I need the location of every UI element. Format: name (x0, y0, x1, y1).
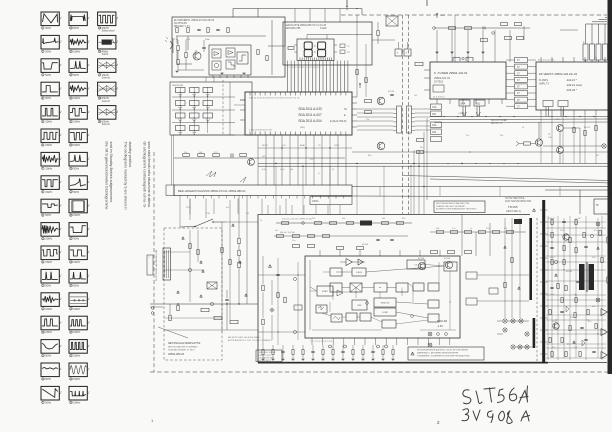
control-line pair extending right from control unit (352, 186, 612, 188)
svg-text:d: d (60, 228, 61, 230)
LED display module box (297, 39, 334, 61)
svg-text:2SC: 2SC (592, 257, 596, 259)
resistor IR bias b (177, 60, 179, 65)
row2 resistors (277, 235, 284, 238)
svg-text:d: d (88, 275, 89, 277)
svg-text:15kHz: 15kHz (45, 191, 53, 194)
svg-text:1n: 1n (318, 173, 320, 175)
resistor R AGC (524, 142, 531, 145)
SMPS component 32 (584, 338, 587, 340)
svg-text:d: d (60, 368, 61, 370)
oscillogram 23 box (69, 129, 87, 143)
interior extra parts left of TDA (277, 293, 279, 298)
svg-text:Zeilenfr.: Zeilenfr. (102, 100, 111, 103)
transistor Q11 (445, 261, 452, 268)
top dashed boundary line (341, 14, 607, 16)
vertical wire right region (579, 190, 581, 214)
keyboard dashed column (222, 80, 224, 135)
oscillogram 18 box (69, 12, 87, 26)
resistor R IF3 (481, 39, 488, 42)
SDA right pin stubs (352, 96, 357, 98)
fuse crossed box (207, 282, 217, 289)
transistor Q1 IR (193, 52, 201, 60)
resistor row1 b (315, 222, 322, 225)
oscillogram 35 box (98, 12, 116, 26)
SMPS component 14 (563, 260, 565, 265)
svg-text:50Hz: 50Hz (73, 167, 80, 170)
wires SDA right to chassis connector (357, 96, 397, 98)
resistor network LED (288, 47, 294, 50)
bottom components row under TDA (258, 351, 430, 353)
tuner top pin (467, 56, 469, 62)
bottom R/C component 13 (382, 350, 384, 355)
svg-text:d: d (88, 321, 89, 323)
TDA internal block 2 (330, 268, 342, 276)
IR box to control unit wires (171, 135, 173, 185)
svg-text:50Hz: 50Hz (45, 401, 52, 404)
SMPS component 26 (569, 326, 571, 331)
secondary opamp driver 3 (601, 352, 607, 359)
svg-text:NETZSCHALTERPLATTE: NETZSCHALTERPLATTE (168, 341, 201, 345)
svg-text:10k: 10k (184, 152, 187, 154)
display module side pins (294, 44, 297, 46)
bottom R/C component 6 (311, 350, 314, 352)
left dashed boundary line (153, 152, 155, 372)
svg-text:50Hz: 50Hz (45, 355, 52, 358)
isolation barrier thick bar 1 upper (529, 218, 532, 300)
svg-text:E (M+R-HOLD): E (M+R-HOLD) (330, 120, 347, 123)
socket stack S2A (431, 122, 442, 128)
nested corner wires top right (586, 23, 608, 25)
wires connector to barrier (507, 320, 529, 322)
oscillogram 38 box (98, 82, 116, 96)
power area extra horizontal wires (164, 251, 190, 253)
SMPS component 34 (565, 352, 567, 357)
svg-text:d: d (88, 345, 89, 347)
svg-text:d: d (60, 64, 61, 66)
svg-text:d: d (88, 87, 89, 89)
svg-text:15kHz: 15kHz (45, 144, 53, 147)
antenna input resistor (415, 62, 423, 65)
keyboard row wires (172, 96, 235, 98)
display module pin hatch row (299, 58, 301, 61)
svg-text:15kHz: 15kHz (73, 214, 81, 217)
TDA internal dots (333, 292, 334, 293)
oscillogram 36 box (98, 35, 116, 49)
resistor row1 d (347, 222, 354, 225)
sloped wire right (430, 179, 612, 183)
TDA internal wires (342, 287, 350, 289)
SMPS component 7 (583, 233, 585, 238)
power switch area dashed outline (164, 228, 222, 360)
resistor R23 (240, 154, 247, 157)
svg-text:d: d (88, 181, 89, 183)
handwritten number 3V 908 A (462, 409, 530, 424)
svg-text:2 3 6 4 8 9 25 26 27 28: 2 3 6 4 8 9 25 26 27 28 (249, 130, 272, 132)
svg-text:d: d (60, 345, 61, 347)
warning text box TR area (434, 201, 485, 213)
svg-text:standby position.: standby position. (128, 142, 132, 168)
oscillogram 27 box (69, 223, 87, 237)
components left of tuner (417, 139, 424, 142)
opamp pre stage (346, 259, 352, 266)
oscillogram 37 box (98, 59, 116, 73)
ZF bottom pin wires down to bus (540, 115, 542, 164)
svg-text:15k: 15k (570, 317, 573, 319)
key switch S6 (203, 101, 213, 106)
TDA internal block 9 (374, 298, 396, 307)
svg-text:ZF-VERST. 29504-102.21/.22: ZF-VERST. 29504-102.21/.22 (539, 72, 577, 76)
IR IC output stage (226, 60, 235, 69)
power area circles (188, 268, 191, 271)
control unit long box BED.-EINHEIT (174, 185, 352, 196)
warning triangle 4 (177, 291, 180, 293)
svg-text:sono stati rilevati nella situ: sono stati rilevati nella situazione di … (147, 142, 151, 208)
SMPS component 17 (550, 286, 553, 288)
svg-text:BRT/DC CL: BRT/DC CL (491, 123, 503, 125)
svg-text:50Hz: 50Hz (73, 74, 80, 77)
key switch S7 (176, 113, 186, 118)
interior vertical wires left of TDA (277, 258, 279, 345)
IR IC limiter (237, 52, 248, 64)
capacitor C20 (230, 154, 232, 158)
TDA internal block 11 (316, 305, 327, 313)
svg-text:CD-PHILIPS: CD-PHILIPS (174, 23, 187, 25)
key switch S1 (176, 88, 186, 93)
oscillogram 12 box (41, 269, 59, 283)
svg-text:50Hz: 50Hz (45, 27, 52, 30)
svg-text:50Hz: 50Hz (73, 238, 80, 241)
note leader line (158, 327, 188, 338)
svg-text:S1A: S1A (432, 106, 437, 109)
connector strip P2 (407, 106, 412, 133)
supply arrows near SDA (359, 83, 361, 88)
svg-text:d: d (60, 41, 61, 43)
SMPS component 23 (574, 313, 576, 318)
secondary opamp driver 2 (601, 329, 607, 336)
keyboard right vertical wire (229, 82, 231, 135)
TDA opamp symbol a (358, 259, 363, 265)
wire AGC up (538, 122, 540, 139)
junction dots chassis edge (413, 163, 414, 164)
warning triangle right column a (504, 246, 507, 248)
bottom R/C component 14 (392, 350, 394, 355)
svg-text:15kHz: 15kHz (73, 378, 81, 381)
bottom R/C component 8 (332, 350, 334, 355)
svg-text:11 4 3 9 5 2: 11 4 3 9 5 2 (433, 97, 445, 99)
row resistors 250s (431, 251, 438, 254)
svg-text:d: d (60, 181, 61, 183)
vertical wires LED box top to rail (294, 9, 296, 23)
key switch S2 (190, 88, 200, 93)
svg-text:d: d (88, 298, 89, 300)
ZF pin ticks top (540, 57, 542, 62)
capacitor C1 (197, 28, 200, 30)
SMPS component 6 (563, 234, 569, 240)
IR wires top rail (174, 22, 268, 24)
resistor R mains 3 (238, 262, 240, 268)
svg-text:1 17 4 15 9 3 10 8: 1 17 4 15 9 3 10 8 2 13 6 (310, 341, 333, 343)
oscillogram 24 box (69, 152, 87, 166)
transistor Q6 (557, 147, 564, 154)
mains wires vertical (238, 195, 240, 238)
svg-text:SDA 2011 A-004: SDA 2011 A-004 (298, 119, 322, 123)
right half row resistors near isolation (437, 231, 444, 234)
oscillogram 10 box (41, 223, 59, 237)
bottom R/C component 4 (292, 350, 294, 355)
oscillogram 25 box (69, 176, 87, 190)
svg-text:100n: 100n (280, 169, 284, 171)
second sloped wire (402, 176, 612, 181)
resistor R2 (187, 28, 189, 33)
TDA internal block 17 (428, 283, 439, 291)
junction dots main bus (275, 163, 276, 164)
display colon dots (314, 45, 315, 46)
svg-text:50Hz: 50Hz (73, 191, 80, 194)
SMPS component 33 (551, 352, 553, 357)
svg-text:d: d (60, 298, 61, 300)
wires upper right of TDA (461, 215, 463, 257)
main chassis outline box (258, 214, 530, 216)
TDA internal circles (366, 302, 369, 305)
svg-text:COMP: COMP (382, 312, 389, 314)
TDA internal block 16 (413, 283, 424, 291)
socket box S6A (459, 100, 470, 106)
svg-text:S02: S02 (432, 131, 437, 134)
SMPS component 35 (579, 352, 581, 357)
warning note box center bottom (408, 347, 484, 360)
SDA IC pin ticks bottom (249, 132, 251, 136)
svg-text:d: d (88, 251, 89, 253)
resistor R22 (213, 154, 220, 157)
warning triangle 3 (202, 270, 205, 272)
svg-text:47n: 47n (594, 230, 597, 232)
TDA sawtooth gen symbol (318, 306, 324, 310)
TDA internal block 6 (374, 283, 387, 292)
oscillogram 28 box (69, 246, 87, 260)
wire ZF to right edge (610, 74, 612, 76)
transistor Q3 mid (377, 97, 385, 105)
TDA internal block 10 (374, 308, 396, 316)
AGC arrow (516, 141, 519, 146)
socket stack S1A (431, 104, 442, 110)
bottom R/C component 9 (341, 350, 344, 352)
TDA internal block 18 (428, 300, 439, 308)
svg-text:sind im Standby-Betrieb aufgen: sind im Standby-Betrieb aufgenommen. (109, 142, 113, 204)
svg-text:d: d (88, 204, 89, 206)
IF link box 1 (515, 58, 528, 63)
transistor Q4 mid (377, 142, 385, 150)
svg-text:2k: 2k (332, 169, 334, 171)
SMPS component 1 (551, 220, 553, 225)
wire top rail over IR and LED (233, 8, 362, 10)
power area extra resistors (189, 244, 191, 249)
connector circles group row1 (503, 319, 507, 323)
keyboard matrix board box (170, 82, 252, 135)
oscillogram 33 box (69, 363, 87, 377)
ZF pin ticks bottom (540, 110, 542, 115)
oscillogram 6 box (41, 129, 59, 143)
svg-text:10u: 10u (292, 240, 295, 242)
wire vertical right of IC (271, 20, 273, 75)
socket stack S02 (431, 129, 442, 135)
svg-text:1 2 3 4 5 6 7 8 9 10 11 12 13: 1 2 3 4 5 6 7 8 9 10 11 12 13 14 15 16 (287, 67, 322, 69)
horizontal bus wires below tuner (430, 116, 612, 118)
SMPS component 12 (597, 247, 600, 249)
svg-text:24 1 21 20 23 22 19 18 17 5 13: 24 1 21 20 23 22 19 18 17 5 13 16 12 15 … (249, 98, 300, 100)
IC U2 TDA 3640 standby supply box (305, 256, 460, 338)
vertical wires chassis edge area (413, 150, 415, 214)
wire drop pairs from ZF sockets (545, 107, 547, 117)
resistor right column a (511, 258, 513, 263)
svg-text:d: d (117, 111, 118, 113)
SMPS component 18 (561, 298, 563, 303)
wires between SDA area and bus rows (258, 147, 352, 149)
supply arrow top (436, 13, 438, 18)
bottom R/C component 10 (352, 350, 354, 355)
TDA internal block 12 (331, 314, 342, 322)
isolation barrier thick bar 1 lower (533, 318, 536, 348)
svg-text:68k 4n7 1k2 560: 68k 4n7 1k2 560 (280, 232, 296, 234)
transistor Q10 (418, 262, 425, 269)
warning triangle 8 (245, 294, 248, 296)
main box left interior parts (269, 265, 272, 268)
SMPS component 11 (575, 248, 577, 253)
transistor Q tuner AGC (535, 139, 542, 146)
IR IC amp stage 1 (212, 49, 221, 58)
svg-text:VOLTMETER GEM.: VOLTMETER GEM. (258, 357, 274, 359)
svg-text:BC338: BC338 (444, 258, 451, 260)
bottom R/C component 2 (272, 350, 274, 355)
oscillogram 3 box (41, 59, 59, 73)
bus wires LED to SDA IC (287, 65, 289, 92)
TDA internal block 7 (396, 283, 408, 292)
oscillogram 34 box (69, 386, 87, 400)
oscillogram 21 box (69, 82, 87, 96)
right page edge black strip (608, 0, 612, 374)
svg-text:15kHz: 15kHz (73, 355, 81, 358)
svg-text:TR: TR (596, 205, 599, 207)
wire LED box to right (372, 39, 395, 41)
warning triangle 1 (182, 237, 185, 239)
supply label arrows (346, 6, 348, 11)
components cluster above ZF (501, 23, 508, 26)
svg-text:d: d (88, 158, 89, 160)
svg-text:33k: 33k (500, 135, 503, 137)
svg-text:50Hz: 50Hz (45, 214, 52, 217)
right area supply box (594, 199, 610, 214)
vertical wires right of LED into tuner area (356, 15, 358, 97)
wire stubs Q6 Q7 (559, 131, 561, 146)
svg-text:WINDOW: WINDOW (381, 303, 390, 305)
IF input coupling components above tuner (434, 27, 530, 29)
bridge diamond node (270, 308, 274, 312)
svg-text:-4 69: -4 69 (437, 325, 443, 328)
component row below SDA IC (174, 157, 345, 159)
svg-text:15kHz: 15kHz (73, 97, 81, 100)
mains horizontal bus (150, 303, 258, 305)
tuner left pins (424, 69, 430, 71)
TDA internal block 3 (352, 268, 366, 276)
warning triangle 6 (232, 224, 235, 226)
svg-text:d: d (117, 64, 118, 66)
oscillogram 22 box (69, 106, 87, 120)
SMPS component 36 (592, 350, 595, 352)
long mid wire under SDA (352, 151, 612, 153)
dark filter right (514, 219, 522, 224)
SMPS component 5 (551, 233, 553, 238)
resistor R mains 2 (238, 250, 240, 256)
svg-text:d: d (60, 87, 61, 89)
SMPS component 19 (575, 298, 577, 303)
TDA internal block 13 (346, 313, 357, 321)
svg-text:15kHz: 15kHz (45, 308, 53, 311)
wires from control box down (189, 199, 191, 215)
resistor R mains 6 (230, 320, 238, 323)
left area wires from BED box to power area (173, 196, 175, 229)
transistor Q5 (248, 159, 255, 166)
diamond input node (301, 221, 304, 224)
wire IR bias (176, 36, 178, 44)
svg-text:15kHz: 15kHz (45, 331, 53, 334)
resistor right of IC 2 (266, 56, 268, 61)
SMPS primary transformer winding black bar 1 (579, 264, 585, 290)
svg-text:Gli oscillogrammi contrassegna: Gli oscillogrammi contrassegnati con la … (143, 142, 147, 209)
control unit pin ticks (179, 196, 181, 199)
svg-text:15kHz: 15kHz (45, 121, 53, 124)
wire drops to tuner top (436, 30, 438, 62)
svg-text:1N4007: 1N4007 (548, 218, 556, 220)
svg-text:50Hz: 50Hz (45, 50, 52, 53)
resistor R IF1 (449, 27, 456, 30)
wire net vertical drops from bus y163 to main box (275, 166, 277, 214)
TDA internal block 8 (352, 300, 367, 310)
resistor R4 (227, 28, 229, 33)
svg-text:d: d (60, 251, 61, 253)
bottom R/C component 12 (371, 350, 374, 352)
dots SMPS (551, 241, 552, 242)
capacitor IR c3 (202, 46, 205, 48)
warning triangle TR (533, 209, 536, 212)
svg-text:2: 2 (149, 257, 150, 259)
hatch ticks on control line (379, 187, 381, 197)
LED board pin row (287, 61, 289, 66)
oscillogram 26 box (69, 199, 87, 213)
oscillogram 17 box (41, 386, 59, 400)
resistor bias Q3 (365, 100, 372, 103)
tuner head bracket symbol (453, 58, 460, 62)
svg-text:d: d (117, 17, 118, 19)
svg-text:15kHz: 15kHz (73, 50, 81, 53)
capacitors row (376, 238, 379, 240)
resistor row1 a (282, 222, 289, 225)
svg-text:SDA 2011 A-007: SDA 2011 A-007 (298, 113, 322, 117)
svg-text:d: d (88, 111, 89, 113)
resistor right column b (504, 283, 506, 288)
IF link box 3 (515, 71, 528, 76)
key switch S10 (176, 126, 186, 131)
svg-text:15kHz: 15kHz (73, 331, 81, 334)
svg-text:15kHz: 15kHz (45, 167, 53, 170)
svg-text:470u: 470u (552, 321, 556, 323)
warning note box bottom left of main area (256, 350, 282, 362)
left connector circles (151, 307, 154, 310)
IR output wire to right (268, 45, 285, 47)
svg-text:d: d (88, 64, 89, 66)
SMPS component 13 (551, 260, 553, 265)
interior circle terminals (294, 278, 297, 281)
SMPS component 24 (587, 310, 589, 315)
